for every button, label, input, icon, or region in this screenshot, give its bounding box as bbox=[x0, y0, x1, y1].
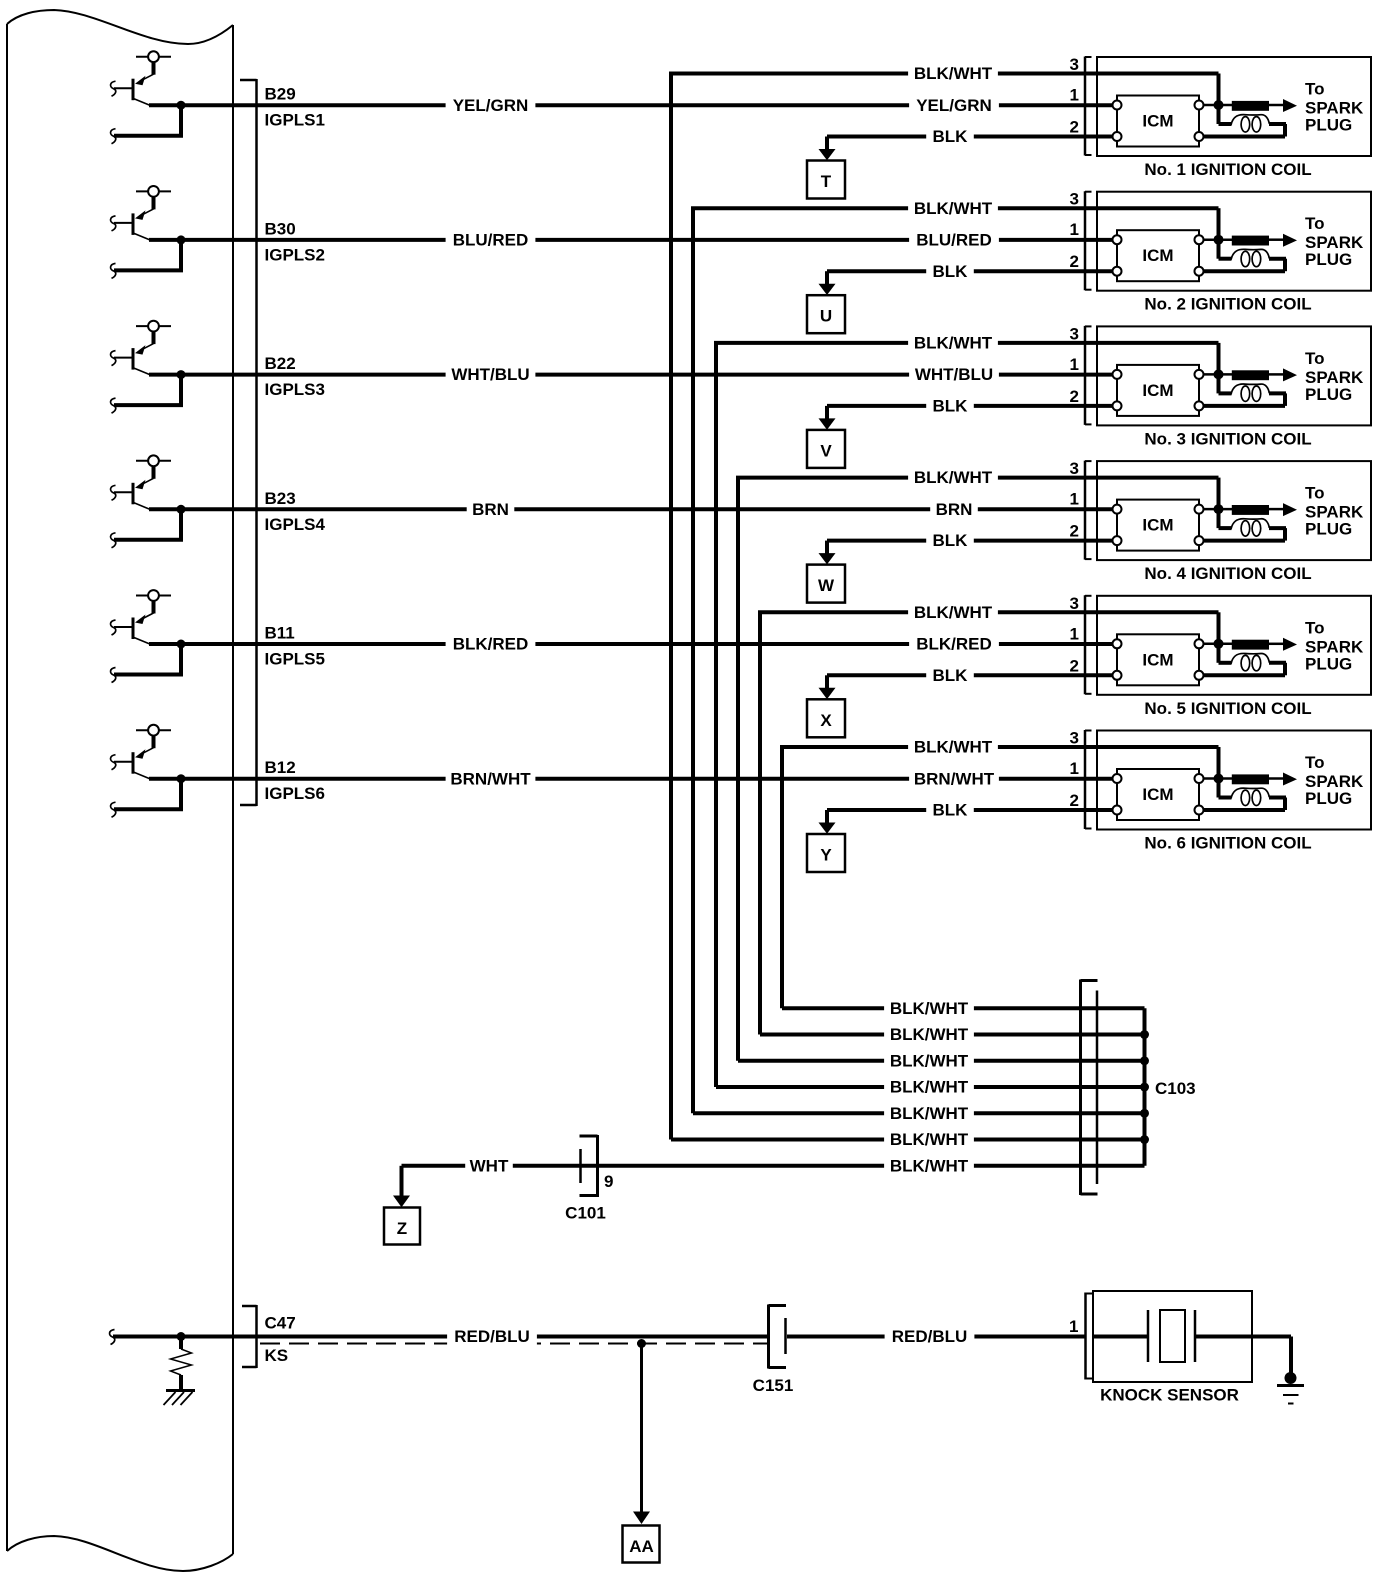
svg-text:BLK/WHT: BLK/WHT bbox=[914, 738, 993, 757]
svg-text:RED/BLU: RED/BLU bbox=[454, 1327, 530, 1346]
svg-text:BLK/WHT: BLK/WHT bbox=[890, 1130, 969, 1149]
svg-text:C103: C103 bbox=[1155, 1079, 1196, 1098]
svg-text:PLUG: PLUG bbox=[1305, 520, 1352, 539]
svg-text:B30: B30 bbox=[265, 219, 296, 238]
svg-text:BLK/WHT: BLK/WHT bbox=[890, 1051, 969, 1070]
svg-text:No. 4 IGNITION COIL: No. 4 IGNITION COIL bbox=[1144, 564, 1311, 583]
svg-text:PLUG: PLUG bbox=[1305, 116, 1352, 135]
svg-text:B11: B11 bbox=[265, 624, 295, 643]
svg-text:IGPLS2: IGPLS2 bbox=[265, 245, 325, 264]
svg-text:9: 9 bbox=[604, 1172, 613, 1191]
svg-text:IGPLS3: IGPLS3 bbox=[265, 380, 325, 399]
svg-text:BLK/RED: BLK/RED bbox=[453, 635, 529, 654]
svg-text:T: T bbox=[821, 172, 832, 191]
svg-text:C101: C101 bbox=[565, 1204, 606, 1223]
svg-text:ICM: ICM bbox=[1142, 516, 1173, 535]
svg-text:2: 2 bbox=[1070, 656, 1079, 675]
svg-text:IGPLS6: IGPLS6 bbox=[265, 784, 325, 803]
svg-text:1: 1 bbox=[1069, 1317, 1078, 1336]
svg-text:IGPLS5: IGPLS5 bbox=[265, 650, 325, 669]
svg-text:YEL/GRN: YEL/GRN bbox=[453, 96, 529, 115]
svg-text:To: To bbox=[1305, 349, 1325, 368]
svg-text:BLU/RED: BLU/RED bbox=[453, 231, 529, 250]
svg-text:3: 3 bbox=[1070, 324, 1079, 343]
svg-text:BLK: BLK bbox=[933, 262, 969, 281]
svg-text:BLK/WHT: BLK/WHT bbox=[890, 1078, 969, 1097]
svg-text:BLK/WHT: BLK/WHT bbox=[914, 603, 993, 622]
svg-text:To: To bbox=[1305, 484, 1325, 503]
svg-text:3: 3 bbox=[1070, 594, 1079, 613]
svg-text:BLK/WHT: BLK/WHT bbox=[914, 334, 993, 353]
svg-text:2: 2 bbox=[1070, 387, 1079, 406]
svg-text:BLK/WHT: BLK/WHT bbox=[914, 64, 993, 83]
svg-text:1: 1 bbox=[1070, 490, 1079, 509]
svg-text:WHT/BLU: WHT/BLU bbox=[451, 365, 529, 384]
svg-text:3: 3 bbox=[1070, 459, 1079, 478]
svg-text:RED/BLU: RED/BLU bbox=[892, 1327, 968, 1346]
svg-text:B29: B29 bbox=[265, 85, 296, 104]
svg-text:BLK/WHT: BLK/WHT bbox=[914, 199, 993, 218]
svg-text:AA: AA bbox=[629, 1537, 654, 1556]
svg-text:B22: B22 bbox=[265, 354, 296, 373]
svg-text:To: To bbox=[1305, 618, 1325, 637]
svg-text:1: 1 bbox=[1070, 220, 1079, 239]
svg-text:BLK/WHT: BLK/WHT bbox=[890, 1104, 969, 1123]
svg-text:B23: B23 bbox=[265, 489, 296, 508]
svg-text:3: 3 bbox=[1070, 55, 1079, 74]
svg-text:U: U bbox=[820, 307, 832, 326]
svg-text:ICM: ICM bbox=[1142, 112, 1173, 131]
svg-text:To: To bbox=[1305, 214, 1325, 233]
svg-text:ICM: ICM bbox=[1142, 650, 1173, 669]
svg-text:B12: B12 bbox=[265, 758, 296, 777]
svg-text:BRN/WHT: BRN/WHT bbox=[450, 769, 531, 788]
svg-text:1: 1 bbox=[1070, 86, 1079, 105]
svg-text:BLK/WHT: BLK/WHT bbox=[914, 468, 993, 487]
svg-text:BLK: BLK bbox=[933, 397, 969, 416]
svg-text:1: 1 bbox=[1070, 355, 1079, 374]
svg-text:BRN: BRN bbox=[936, 500, 973, 519]
svg-text:BLK: BLK bbox=[933, 531, 969, 550]
svg-text:No. 1 IGNITION COIL: No. 1 IGNITION COIL bbox=[1144, 160, 1311, 179]
svg-text:2: 2 bbox=[1070, 252, 1079, 271]
svg-text:WHT: WHT bbox=[470, 1156, 509, 1175]
svg-text:BLU/RED: BLU/RED bbox=[916, 231, 992, 250]
svg-text:BLK: BLK bbox=[933, 127, 969, 146]
svg-text:1: 1 bbox=[1070, 759, 1079, 778]
svg-text:BLK/WHT: BLK/WHT bbox=[890, 1025, 969, 1044]
svg-text:1: 1 bbox=[1070, 624, 1079, 643]
svg-text:BRN: BRN bbox=[472, 500, 509, 519]
svg-text:3: 3 bbox=[1070, 190, 1079, 209]
svg-text:W: W bbox=[818, 576, 835, 595]
svg-text:BRN/WHT: BRN/WHT bbox=[914, 769, 995, 788]
svg-text:ICM: ICM bbox=[1142, 785, 1173, 804]
svg-text:BLK/WHT: BLK/WHT bbox=[890, 999, 969, 1018]
svg-text:IGPLS4: IGPLS4 bbox=[265, 515, 326, 534]
svg-text:C47: C47 bbox=[265, 1314, 296, 1333]
svg-text:KS: KS bbox=[265, 1346, 289, 1365]
svg-text:2: 2 bbox=[1070, 522, 1079, 541]
svg-text:Y: Y bbox=[820, 846, 832, 865]
svg-text:PLUG: PLUG bbox=[1305, 789, 1352, 808]
svg-text:ICM: ICM bbox=[1142, 246, 1173, 265]
svg-text:KNOCK SENSOR: KNOCK SENSOR bbox=[1100, 1386, 1239, 1405]
svg-text:No. 6 IGNITION COIL: No. 6 IGNITION COIL bbox=[1144, 834, 1311, 853]
svg-text:WHT/BLU: WHT/BLU bbox=[915, 365, 993, 384]
svg-text:IGPLS1: IGPLS1 bbox=[265, 111, 325, 130]
svg-text:No. 2 IGNITION COIL: No. 2 IGNITION COIL bbox=[1144, 295, 1311, 314]
svg-text:2: 2 bbox=[1070, 791, 1079, 810]
svg-text:No. 3 IGNITION COIL: No. 3 IGNITION COIL bbox=[1144, 429, 1311, 448]
svg-text:To: To bbox=[1305, 80, 1325, 99]
svg-text:V: V bbox=[820, 441, 832, 460]
svg-text:X: X bbox=[820, 711, 832, 730]
svg-text:BLK: BLK bbox=[933, 666, 969, 685]
svg-text:3: 3 bbox=[1070, 729, 1079, 748]
svg-text:PLUG: PLUG bbox=[1305, 654, 1352, 673]
svg-text:No. 5 IGNITION COIL: No. 5 IGNITION COIL bbox=[1144, 699, 1311, 718]
svg-text:C151: C151 bbox=[753, 1376, 794, 1395]
svg-text:ICM: ICM bbox=[1142, 381, 1173, 400]
svg-text:To: To bbox=[1305, 753, 1325, 772]
svg-text:PLUG: PLUG bbox=[1305, 250, 1352, 269]
svg-text:PLUG: PLUG bbox=[1305, 385, 1352, 404]
svg-text:BLK: BLK bbox=[933, 801, 969, 820]
svg-text:BLK/RED: BLK/RED bbox=[916, 635, 992, 654]
svg-text:Z: Z bbox=[397, 1219, 407, 1238]
svg-text:2: 2 bbox=[1070, 118, 1079, 137]
svg-text:YEL/GRN: YEL/GRN bbox=[916, 96, 992, 115]
svg-text:BLK/WHT: BLK/WHT bbox=[890, 1156, 969, 1175]
